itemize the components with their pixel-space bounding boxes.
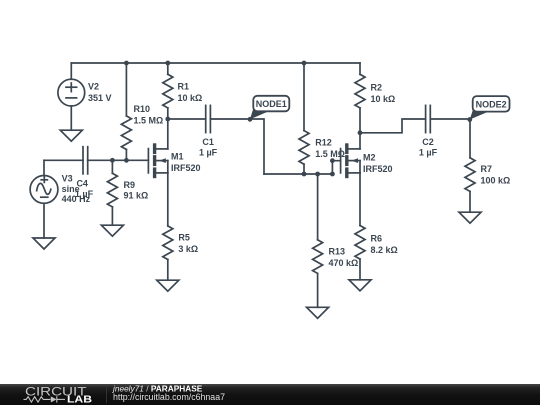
capacitor C1 bbox=[206, 105, 211, 132]
wire M2 drain bbox=[359, 133, 361, 149]
label R12 1.5 M bbox=[315, 137, 345, 159]
label R9 91 k bbox=[124, 180, 149, 201]
label R6 8.2 k bbox=[371, 234, 398, 256]
wire M1 drain bbox=[167, 119, 169, 149]
svg-text:R2: R2 bbox=[371, 82, 383, 92]
footer divider bbox=[106, 386, 108, 403]
label R1 10 k bbox=[178, 81, 203, 103]
footer logo squiggle+diode bbox=[24, 396, 66, 402]
svg-text:M1: M1 bbox=[171, 152, 184, 162]
label R2 10 k bbox=[371, 82, 396, 104]
node NODE2 flag bbox=[470, 96, 510, 119]
ground (R13) bbox=[307, 307, 329, 318]
svg-text:R12: R12 bbox=[315, 137, 332, 147]
wire bias rail 2 bbox=[264, 173, 332, 175]
svg-text:351 V: 351 V bbox=[88, 93, 112, 103]
label C2 1 uF bbox=[419, 137, 438, 158]
voltage source V3 sine bbox=[30, 160, 58, 238]
svg-text:NODE1: NODE1 bbox=[256, 99, 287, 109]
svg-text:1.5 MΩ: 1.5 MΩ bbox=[134, 115, 164, 125]
resistor R5 bbox=[163, 226, 173, 280]
label R7 100 k bbox=[481, 164, 511, 186]
svg-text:V2: V2 bbox=[88, 82, 99, 92]
svg-text:R10: R10 bbox=[134, 104, 151, 114]
svg-text:IRF520: IRF520 bbox=[171, 163, 201, 173]
wire top supply rail bbox=[71, 62, 360, 64]
ground (R6) bbox=[349, 280, 371, 291]
resistor R12 bbox=[299, 63, 309, 174]
transistor M2 IRF520 bbox=[341, 145, 360, 177]
resistor R6 bbox=[355, 226, 365, 280]
resistor R1 bbox=[163, 63, 173, 119]
ground (R9) bbox=[101, 225, 123, 236]
resistor R7 bbox=[465, 120, 475, 213]
svg-text:10 kΩ: 10 kΩ bbox=[178, 93, 203, 103]
wire C1 to NODE1 corner bbox=[210, 119, 264, 174]
svg-text:C2: C2 bbox=[422, 137, 434, 147]
svg-text:LAB: LAB bbox=[67, 395, 92, 405]
wire M1 source bbox=[167, 173, 169, 226]
label R5 3 k bbox=[178, 232, 198, 254]
ground (V3) bbox=[33, 238, 55, 249]
svg-text:1 µF: 1 µF bbox=[419, 148, 438, 158]
label M2 IRF520 bbox=[363, 153, 393, 175]
wire C2 to NODE2 bbox=[430, 118, 470, 120]
wire R1/drain to C1 bbox=[168, 118, 206, 120]
wire M2 drain to C2 bbox=[360, 119, 426, 133]
svg-text:M2: M2 bbox=[363, 153, 376, 163]
label C1 1 uF bbox=[199, 137, 218, 158]
wire gate jog M2 bbox=[332, 161, 340, 174]
svg-text:C4: C4 bbox=[76, 179, 88, 189]
svg-text:10 kΩ: 10 kΩ bbox=[371, 94, 396, 104]
svg-text:R9: R9 bbox=[124, 180, 136, 190]
svg-text:R5: R5 bbox=[178, 232, 190, 242]
wire C4 to M1 gate bbox=[88, 159, 149, 161]
svg-text:3 kΩ: 3 kΩ bbox=[178, 244, 198, 254]
svg-text:91 kΩ: 91 kΩ bbox=[124, 190, 149, 200]
resistor R13 bbox=[313, 174, 323, 307]
svg-text:NODE2: NODE2 bbox=[476, 100, 507, 110]
node NODE1 flag bbox=[250, 96, 289, 120]
voltage source V2 bbox=[58, 63, 85, 130]
svg-text:R7: R7 bbox=[481, 164, 493, 174]
svg-text:470 kΩ: 470 kΩ bbox=[329, 258, 359, 268]
capacitor C4 bbox=[83, 147, 88, 174]
wire M2 source bbox=[359, 173, 361, 226]
label R13 470 k bbox=[329, 247, 359, 269]
svg-text:R6: R6 bbox=[371, 234, 383, 244]
resistor R10 bbox=[121, 63, 131, 160]
junction dots bbox=[110, 61, 472, 177]
resistor R2 bbox=[355, 63, 365, 133]
label M1 IRF520 bbox=[171, 152, 201, 174]
label V2 351 V bbox=[88, 82, 112, 104]
footer bar bbox=[0, 384, 540, 405]
wire input bbox=[44, 159, 83, 161]
capacitor C2 bbox=[426, 105, 431, 132]
svg-text:R1: R1 bbox=[178, 81, 190, 91]
ground (R7) bbox=[459, 212, 481, 223]
svg-text:V3: V3 bbox=[62, 174, 73, 184]
label V3 sine 440 Hz bbox=[62, 174, 91, 204]
label C4 1 uF bbox=[75, 179, 94, 200]
svg-text:IRF520: IRF520 bbox=[363, 164, 393, 174]
svg-text:8.2 kΩ: 8.2 kΩ bbox=[371, 245, 398, 255]
resistor R9 bbox=[107, 160, 117, 225]
svg-text:1 µF: 1 µF bbox=[199, 148, 218, 158]
svg-text:R13: R13 bbox=[329, 247, 346, 257]
svg-text:1 µF: 1 µF bbox=[75, 189, 94, 199]
label R10 1.5 M bbox=[134, 104, 164, 126]
svg-text:100 kΩ: 100 kΩ bbox=[481, 176, 511, 186]
transistor M1 IRF520 bbox=[148, 145, 167, 177]
svg-text:C1: C1 bbox=[202, 137, 214, 147]
ground (V2) bbox=[60, 130, 82, 141]
ground (R5) bbox=[157, 280, 179, 291]
svg-text:http://circuitlab.com/c6hnaa7: http://circuitlab.com/c6hnaa7 bbox=[113, 392, 225, 402]
